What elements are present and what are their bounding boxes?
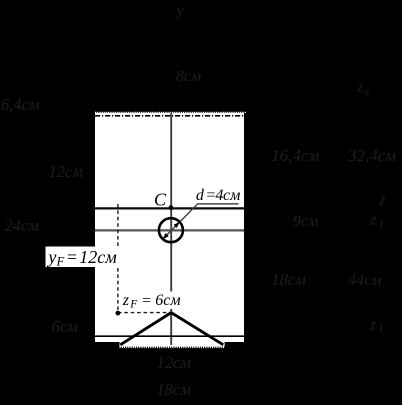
diameter leader line	[163, 204, 198, 239]
triangle support left leg	[120, 313, 171, 345]
horizontal z-axis through C	[95, 207, 246, 209]
svg-text:y: y	[46, 247, 56, 267]
svg-text:6,4см: 6,4см	[1, 95, 40, 114]
svg-text:18см: 18см	[157, 380, 192, 399]
svg-text:d: d	[196, 187, 205, 204]
centroidal dash-dot axis (top edge)	[95, 115, 246, 117]
svg-text:6см: 6см	[155, 292, 180, 309]
leader shelf under d=4cm	[197, 203, 238, 205]
svg-text:=: =	[141, 293, 152, 310]
bottom edge of rectangle	[95, 335, 246, 337]
vertical y-axis line	[170, 113, 172, 345]
svg-text:18см: 18см	[272, 270, 307, 289]
point C dot	[169, 205, 174, 210]
dashed vertical line (y_F)	[117, 204, 119, 313]
arrowhead lower-left	[163, 233, 169, 239]
svg-text:24см: 24см	[5, 216, 40, 235]
svg-text:z: z	[356, 79, 364, 96]
svg-text:z: z	[379, 192, 387, 209]
hole circle	[159, 218, 183, 242]
label box y_F = 12cm	[46, 247, 121, 268]
svg-text:F: F	[129, 298, 138, 310]
svg-text:9см: 9см	[293, 213, 318, 230]
horizontal gray line through circle center	[95, 229, 246, 231]
svg-text:C: C	[154, 189, 167, 209]
right edge of rectangle	[244, 113, 246, 342]
arrowhead upper-right	[174, 222, 180, 228]
triangle support right leg	[171, 313, 223, 345]
svg-text:z: z	[370, 212, 378, 229]
svg-text:1: 1	[379, 219, 385, 231]
svg-text:32,4см: 32,4см	[347, 146, 396, 165]
svg-text:y: y	[175, 3, 185, 20]
svg-text:см: см	[223, 187, 240, 204]
ground hatch strip	[120, 342, 225, 347]
label box z_F = 6cm	[119, 292, 183, 310]
svg-text:z: z	[122, 292, 130, 309]
svg-text:12см: 12см	[157, 353, 192, 372]
svg-text:44см: 44см	[348, 272, 381, 289]
svg-text:12см: 12см	[79, 247, 117, 267]
svg-text:12см: 12см	[49, 162, 84, 181]
svg-text:1: 1	[378, 324, 384, 336]
svg-text:16,4см: 16,4см	[271, 146, 319, 165]
svg-text:6см: 6см	[52, 317, 79, 336]
svg-text:=: =	[66, 247, 78, 267]
white body of section	[95, 113, 246, 342]
dashed horizontal line (z_F)	[118, 312, 171, 314]
point F dot	[116, 311, 121, 316]
svg-text:c: c	[366, 86, 371, 98]
svg-text:F: F	[56, 255, 65, 269]
svg-text:8см: 8см	[176, 68, 201, 85]
svg-text:z: z	[369, 317, 377, 334]
